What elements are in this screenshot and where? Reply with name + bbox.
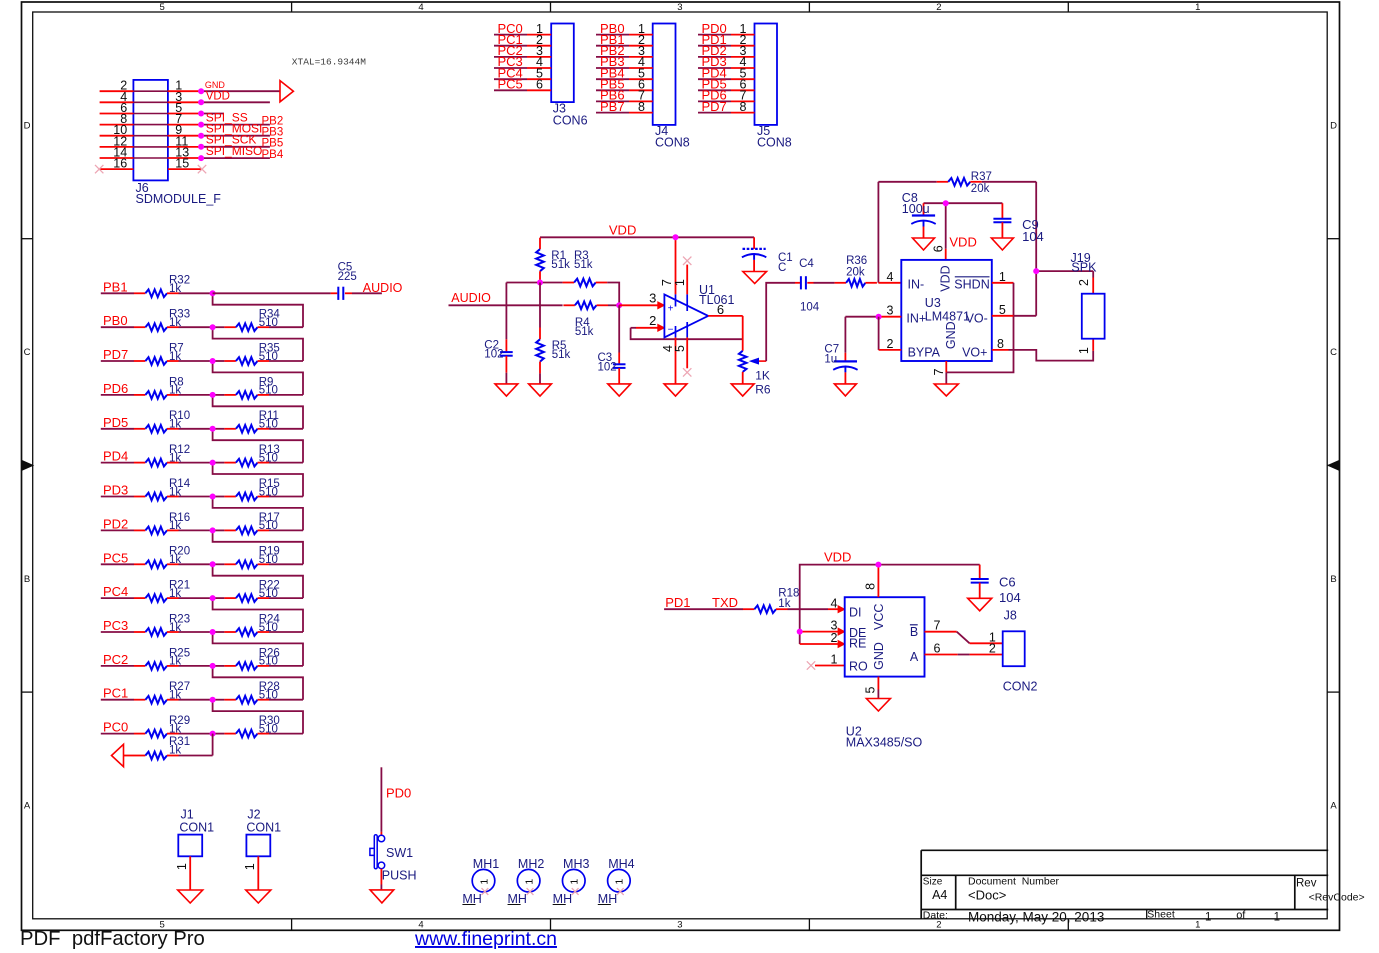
wire ladder step [213, 632, 303, 666]
wire RO pin 1 [815, 653, 845, 667]
ground SW1 [370, 890, 394, 903]
svg-text:MAX3485/SO: MAX3485/SO [846, 735, 923, 749]
svg-text:SPK: SPK [1071, 260, 1097, 274]
svg-text:1k: 1k [169, 745, 181, 757]
svg-text:510: 510 [259, 554, 278, 566]
wire ladder step [213, 361, 303, 395]
svg-text:VDD: VDD [824, 550, 851, 565]
svg-text:104: 104 [800, 302, 820, 314]
no-connect mark MH1 [482, 888, 489, 895]
J4 pin 6 wire net PB5 [596, 77, 653, 92]
svg-text:A: A [1330, 800, 1337, 811]
resistor R16 1k [134, 512, 190, 534]
U1 pin 5 wire [673, 322, 687, 368]
junction J6 pin5 [198, 111, 204, 117]
svg-text:<RevCode>: <RevCode> [1309, 892, 1365, 904]
wire to junction [179, 394, 213, 396]
J4 pin 4 wire net PB3 [596, 54, 653, 69]
svg-text:16: 16 [113, 157, 127, 171]
wire A pin 6 to J8 pin 2 [925, 641, 1003, 655]
J6 internal row 6-5 [133, 113, 168, 115]
svg-text:PD0: PD0 [386, 786, 411, 801]
J6 pin 11 wire [168, 134, 201, 148]
J6 pin 12 wire [100, 134, 134, 148]
J4 pin 2 wire net PB1 [596, 32, 653, 47]
svg-text:PC1: PC1 [103, 686, 128, 701]
resistor R11 510 [213, 410, 303, 432]
svg-text:PD5: PD5 [103, 415, 128, 430]
U2 pin 8 VCC wire [864, 565, 879, 598]
no-connect mark J6 pin 15 [198, 165, 206, 173]
junction node PB0 [210, 324, 216, 330]
wire IN+ to C7 [845, 317, 878, 353]
resistor R18 1k [743, 588, 800, 613]
wire to junction [179, 665, 213, 667]
svg-text:510: 510 [259, 317, 278, 329]
wire ladder step [213, 497, 303, 531]
wire SPI_SCK net [201, 146, 270, 148]
junction node PC4 [210, 595, 216, 601]
svg-text:AUDIO: AUDIO [363, 281, 403, 295]
svg-text:of: of [1236, 910, 1246, 922]
svg-text:3: 3 [887, 304, 894, 318]
junction feedback-speaker [1033, 268, 1039, 274]
svg-text:510: 510 [259, 723, 278, 735]
svg-text:510: 510 [259, 520, 278, 532]
IC U2 MAX3485 [845, 597, 925, 749]
J4 pin 7 wire net PB6 [596, 88, 653, 103]
svg-text:XTAL=16.9344M: XTAL=16.9344M [292, 57, 366, 68]
resistor R14 1k [134, 478, 191, 500]
resistor R31 1k [124, 736, 213, 759]
U1 pin 1 wire [673, 265, 687, 311]
ground C2 [495, 384, 518, 396]
J3 pin 2 wire net PC1 [494, 32, 551, 47]
svg-text:510: 510 [259, 622, 278, 634]
J5 pin 4 wire net PD3 [698, 54, 755, 69]
junction DE [797, 629, 803, 635]
J5 pin 7 wire net PD6 [698, 88, 755, 103]
U3 pin 6 VDD wire [931, 203, 945, 260]
wire SPI_MISO net [201, 157, 270, 159]
svg-text:VO+: VO+ [962, 346, 987, 360]
svg-text:8: 8 [740, 100, 747, 114]
wire VO+ pin 8 to speaker pin 1 [992, 337, 1093, 361]
svg-text:PC2: PC2 [103, 652, 128, 667]
svg-text:D: D [24, 120, 31, 131]
svg-text:PC0: PC0 [103, 720, 128, 735]
wire VDD rail U2 [800, 565, 980, 644]
connector J1 CON1 [175, 807, 214, 890]
resistor R23 1k [134, 613, 190, 635]
svg-text:3: 3 [649, 290, 656, 305]
J3 pin 5 wire net PC4 [494, 65, 551, 80]
svg-text:CON2: CON2 [1003, 679, 1038, 693]
svg-text:PC5: PC5 [103, 550, 128, 565]
svg-text:5: 5 [160, 2, 165, 13]
J3 pin 1 wire net PC0 [494, 21, 551, 36]
resistor R12 1k [134, 444, 190, 466]
J6 pin 3 wire [168, 90, 201, 104]
svg-text:Sheet: Sheet [1147, 909, 1175, 921]
svg-text:510: 510 [259, 419, 278, 431]
wire to junction [179, 360, 213, 362]
svg-text:2: 2 [936, 2, 941, 13]
svg-text:SW1: SW1 [386, 846, 413, 860]
svg-text:DI: DI [849, 605, 862, 619]
wire to junction [179, 631, 213, 633]
U1 output pin 6 wire [708, 302, 743, 317]
ground C7 [834, 384, 856, 396]
ground R5 [529, 384, 552, 396]
J6 internal row 4-3 [133, 101, 168, 103]
svg-text:CON6: CON6 [553, 113, 588, 127]
svg-text:PC4: PC4 [103, 584, 128, 599]
resistor R29 1k [134, 715, 190, 737]
svg-text:1: 1 [673, 279, 687, 286]
J6 pin 6 wire [100, 101, 134, 115]
J6 pin 13 wire [168, 146, 201, 160]
J6 internal row 10-9 [133, 135, 168, 137]
junction SPI_MISO [198, 155, 204, 161]
wire IN- stub [878, 270, 901, 284]
J6 pin 1 wire [168, 79, 201, 93]
svg-text:1: 1 [243, 863, 257, 870]
svg-text:MH: MH [598, 892, 617, 906]
svg-text:VDD: VDD [206, 91, 230, 103]
wire PD4 input [101, 462, 134, 464]
ground J2 [246, 890, 271, 903]
svg-text:510: 510 [259, 385, 278, 397]
ground J1 [178, 890, 203, 903]
wire B pin 7 to J8 pin 1 [925, 619, 1003, 645]
junction VDD pin6 [943, 200, 949, 206]
svg-text:102: 102 [484, 348, 503, 360]
resistor R35 510 [213, 342, 303, 364]
svg-text:+: + [668, 303, 674, 314]
svg-text:104: 104 [999, 590, 1021, 605]
J6 internal row 12-11 [133, 146, 168, 148]
resistor R1 51k [536, 238, 570, 283]
wire ladder step [213, 598, 303, 632]
svg-text:1: 1 [1205, 912, 1211, 924]
svg-text:PD7: PD7 [702, 99, 727, 114]
wire R4 to plus node [608, 304, 619, 306]
svg-text:R6: R6 [755, 382, 771, 396]
svg-text:CON8: CON8 [757, 136, 792, 150]
junction SPI_SS [198, 122, 204, 128]
svg-text:20k: 20k [971, 183, 990, 195]
svg-text:1: 1 [1195, 920, 1200, 931]
wire PD3 input [101, 496, 134, 498]
junction plus input node [616, 302, 622, 308]
no-connect mark J6 pin 16 [95, 165, 103, 173]
wire to junction [179, 292, 213, 294]
wire feedback right vertical [1035, 182, 1037, 316]
svg-text:51k: 51k [552, 349, 571, 361]
capacitor C6 104 [971, 565, 1021, 605]
svg-text:GND: GND [944, 321, 958, 349]
svg-text:2: 2 [649, 313, 656, 328]
mounting hole MH4 [598, 857, 635, 906]
connector J8 CON2 [1003, 608, 1038, 693]
svg-text:3: 3 [677, 920, 682, 931]
wire PC3 input [101, 631, 134, 633]
svg-text:PB4: PB4 [262, 149, 284, 161]
resistor R22 510 [213, 580, 303, 602]
no-connect mark MH4 [617, 888, 624, 895]
J6 pin 4 wire [100, 90, 134, 104]
wire AUDIO out [352, 292, 382, 294]
connector J4 CON8 [653, 24, 690, 150]
junction R1 node [537, 280, 543, 286]
wire PD1 TXD [664, 608, 743, 610]
svg-text:6: 6 [536, 78, 543, 92]
svg-text:2: 2 [1077, 279, 1091, 286]
resistor R7 1k [134, 342, 184, 364]
svg-text:D: D [1330, 120, 1337, 131]
wire PB0 input [101, 326, 134, 328]
wire PD7 input [101, 360, 134, 362]
junction node PB1 [210, 290, 216, 296]
ground C9 [991, 238, 1013, 250]
svg-text:225: 225 [338, 271, 357, 283]
resistor R24 510 [213, 613, 303, 635]
svg-text:PD7: PD7 [103, 347, 128, 362]
svg-text:R36: R36 [846, 255, 867, 267]
capacitor C5 225 [331, 262, 357, 300]
wire ladder step [213, 429, 303, 463]
junction SPI_SCK [198, 144, 204, 150]
J6 pin 5 wire [168, 101, 201, 115]
wire to speaker pin 2 [1036, 270, 1093, 272]
wire PB1 input [101, 292, 134, 294]
junction IN+ [876, 314, 882, 320]
junction VCC [875, 562, 881, 568]
wire ladder step [213, 395, 303, 429]
capacitor C3 102 [598, 305, 626, 384]
wire ladder step [213, 666, 303, 700]
U1 pin 7 VDD wire [660, 237, 675, 306]
svg-text:PD6: PD6 [103, 381, 128, 396]
J5 pin 1 wire net PD0 [698, 21, 755, 36]
svg-text:VDD: VDD [938, 265, 952, 291]
resistor R9 510 [213, 376, 303, 398]
svg-text:GND: GND [872, 642, 886, 670]
svg-text:1k: 1k [778, 598, 790, 610]
svg-text:15: 15 [175, 157, 189, 171]
J3 pin 3 wire net PC2 [494, 43, 551, 58]
junction node PC0 [210, 731, 216, 737]
svg-text:J1: J1 [181, 807, 194, 821]
U1 pin 4 wire [661, 326, 676, 384]
wire R3 to plus node [607, 283, 619, 306]
connector J6 SDMODULE_F [133, 80, 221, 206]
wire ladder step [213, 327, 303, 361]
svg-text:C4: C4 [799, 258, 814, 270]
svg-text:4: 4 [887, 270, 894, 284]
svg-text:4: 4 [831, 596, 838, 610]
junction node PC3 [210, 629, 216, 635]
resistor R17 510 [213, 512, 303, 534]
wire to junction [179, 529, 213, 531]
wire node row [506, 282, 562, 284]
svg-text:VO-: VO- [966, 312, 988, 326]
J4 pin 1 wire net PB0 [596, 21, 653, 36]
svg-text:1: 1 [569, 879, 581, 885]
wire R6 wiper to C4 [766, 283, 795, 361]
svg-text:Rev: Rev [1296, 877, 1317, 889]
svg-text:1: 1 [478, 879, 490, 885]
wire IN+ to BYPASS [879, 317, 902, 351]
svg-text:Date:: Date: [923, 910, 948, 922]
svg-text:R37: R37 [971, 171, 992, 183]
svg-text:5: 5 [863, 686, 877, 693]
svg-text:PB1: PB1 [103, 279, 128, 294]
no-connect mark MH3 [572, 888, 579, 895]
svg-text:6: 6 [931, 245, 945, 252]
mounting hole MH3 [553, 857, 590, 906]
J4 pin 5 wire net PB4 [596, 65, 653, 80]
svg-text:A: A [24, 800, 31, 811]
wire from J6 pin 5 [201, 113, 224, 115]
svg-text:8: 8 [864, 583, 878, 590]
wire minus input stub [636, 324, 664, 331]
J6 pin 8 wire [100, 112, 134, 126]
connector J3 CON6 [551, 24, 587, 128]
svg-text:510: 510 [259, 486, 278, 498]
connector J2 CON1 [243, 807, 281, 890]
svg-text:C: C [778, 262, 786, 274]
no-connect mark U1 pin 5 [683, 368, 691, 376]
svg-text:CON1: CON1 [179, 820, 214, 834]
J6 pin 10 wire [100, 123, 134, 137]
wire VO- pin 5 [992, 303, 1014, 317]
junction node PC5 [210, 561, 216, 567]
svg-text:PD1: PD1 [665, 595, 690, 610]
IC U3 LM4871 [901, 260, 992, 361]
svg-text:B: B [24, 574, 30, 585]
mounting hole MH2 [508, 857, 545, 906]
resistor R36 20k [835, 255, 877, 287]
wire ladder step [213, 463, 303, 497]
wire VDD net from J6 pin 3 [201, 101, 270, 103]
svg-text:5: 5 [999, 303, 1006, 317]
J3 pin 6 wire net PC5 [494, 77, 551, 92]
J5 pin 8 wire net PD7 [698, 99, 755, 114]
wire to junction [179, 597, 213, 599]
svg-text:1K: 1K [755, 368, 770, 382]
svg-text:CON8: CON8 [655, 136, 690, 150]
svg-text:102: 102 [598, 361, 617, 373]
connector J5 CON8 [755, 24, 792, 150]
wire to junction [179, 699, 213, 701]
svg-text:<Doc>: <Doc> [968, 887, 1006, 902]
wire feedback loop [631, 328, 743, 339]
wire PC1 input [101, 699, 134, 701]
wire to junction [179, 462, 213, 464]
svg-text:2: 2 [989, 641, 996, 655]
ground C1 [743, 272, 767, 284]
off-page connector arrow left [112, 744, 124, 766]
wire C4 to R36 [814, 282, 835, 284]
resistor R19 510 [213, 546, 303, 568]
wire VDD rail op-amp [175, 171, 1105, 906]
junction node PD5 [210, 426, 216, 432]
svg-text:2: 2 [887, 337, 894, 351]
junction node PC2 [210, 663, 216, 669]
svg-text:Size: Size [923, 877, 943, 888]
svg-text:B: B [1330, 574, 1336, 585]
J5 pin 6 wire net PD5 [698, 77, 755, 92]
wire switch to ground [380, 869, 382, 890]
J6 internal row 8-7 [133, 124, 168, 126]
wire to junction [179, 326, 213, 328]
svg-text:PB7: PB7 [600, 99, 625, 114]
title block [921, 850, 1364, 924]
mounting hole MH1 [462, 857, 499, 906]
wire summing node to C5 [213, 292, 331, 294]
svg-text:C: C [24, 347, 31, 358]
J6 pin 9 wire [168, 123, 201, 137]
svg-text:SPI_MISO: SPI_MISO [206, 144, 263, 158]
svg-text:6: 6 [934, 641, 941, 655]
svg-text:AUDIO: AUDIO [451, 291, 491, 305]
resistor R10 1k [134, 410, 190, 432]
resistor R15 510 [213, 478, 303, 500]
no-connect mark RO [807, 661, 815, 669]
svg-text:1: 1 [1274, 912, 1280, 924]
no-connect mark MH2 [527, 888, 534, 895]
U2 pin 5 GND wire [863, 677, 878, 699]
ground U2 pin 5 [866, 699, 890, 712]
svg-text:MH: MH [553, 892, 572, 906]
svg-text:510: 510 [259, 452, 278, 464]
wire to junction [179, 428, 213, 430]
ground C3 [608, 384, 631, 396]
svg-text:51k: 51k [574, 259, 593, 271]
resistor R8 1k [134, 376, 184, 398]
resistor R30 510 [213, 715, 303, 737]
svg-text:VDD: VDD [949, 234, 976, 249]
wire AUDIO to R4 [449, 304, 563, 306]
capacitor C4 104 [795, 258, 820, 313]
svg-text:RE: RE [849, 637, 866, 651]
svg-text:A4: A4 [932, 888, 947, 902]
resistor R25 1k [134, 647, 190, 669]
wire VDD rail C8 C9 [924, 202, 1003, 204]
wire PC4 input [101, 597, 134, 599]
svg-text:PUSH: PUSH [382, 868, 417, 882]
J4 pin 3 wire net PB2 [596, 43, 653, 58]
wire PD6 input [101, 394, 134, 396]
svg-text:6: 6 [717, 302, 724, 317]
svg-text:TXD: TXD [712, 595, 738, 610]
wire PC2 input [101, 665, 134, 667]
resistor R37 20k [878, 171, 1036, 195]
wire VO- to feedback [1014, 315, 1037, 317]
ground R6 [731, 384, 754, 396]
svg-text:510: 510 [259, 588, 278, 600]
svg-text:1: 1 [1195, 2, 1200, 13]
svg-text:IN-: IN- [908, 277, 925, 291]
J3 pin 4 wire net PC3 [494, 54, 551, 69]
off-page connector GND arrow [280, 81, 293, 102]
svg-text:J2: J2 [247, 807, 260, 821]
svg-text:8: 8 [638, 100, 645, 114]
svg-text:51k: 51k [575, 326, 594, 338]
svg-text:−: − [668, 325, 674, 336]
